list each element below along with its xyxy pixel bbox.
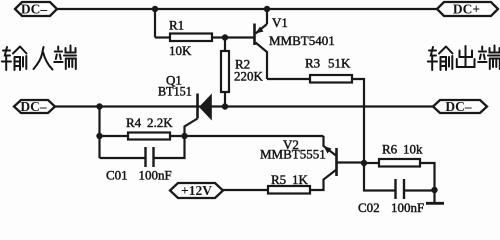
wire R6 right lead down: [420, 163, 435, 190]
ground: [426, 190, 444, 203]
wire middle DC- rail: [55, 105, 433, 107]
resistor R2: [221, 38, 229, 108]
svg-text:2.2K: 2.2K: [147, 115, 173, 130]
node dot top rail / R1: [152, 6, 158, 12]
resistor R3: [310, 75, 352, 83]
capacitor C01: [100, 136, 185, 167]
node dot gate node: [181, 133, 187, 139]
transistor V1: [255, 9, 268, 79]
terminal +12V: [170, 183, 223, 198]
resistor R5: [268, 186, 310, 194]
svg-text:100nF: 100nF: [139, 168, 172, 183]
svg-text:MMBT5551: MMBT5551: [260, 147, 326, 162]
resistor R4: [128, 133, 170, 140]
wire top rail: [57, 8, 437, 10]
svg-text:R4: R4: [126, 115, 142, 130]
svg-text:R6: R6: [382, 142, 398, 157]
terminal DC+ top-right: [437, 2, 498, 16]
resistor R1: [170, 34, 212, 42]
terminal DC- mid-right: [433, 100, 487, 113]
terminal DC- top-left: [15, 2, 57, 16]
svg-text:R3: R3: [305, 56, 320, 71]
svg-text:C02: C02: [358, 200, 380, 214]
capacitor C02: [396, 179, 435, 199]
wire gate node to V2 emitter corner: [170, 135, 324, 137]
wire node B to R6: [364, 162, 379, 164]
resistor R6: [379, 159, 420, 167]
node dot top rail / V1 emitter: [264, 6, 270, 12]
svg-text:10k: 10k: [403, 142, 423, 157]
svg-text:BT151: BT151: [158, 85, 192, 99]
node dot C02 / ground: [431, 187, 437, 193]
wire V1 collector to R3: [267, 78, 310, 80]
svg-text:DC–: DC–: [445, 99, 471, 114]
transistor V2: [310, 136, 364, 190]
svg-text:1K: 1K: [292, 172, 309, 187]
node dot R4 left: [96, 133, 102, 139]
wire R3 right lead down to node B: [352, 79, 396, 191]
svg-text:+12V: +12V: [181, 183, 212, 198]
svg-text:MMBT5401: MMBT5401: [269, 33, 335, 48]
node dot V2 base / R6: [361, 160, 367, 166]
svg-text:220K: 220K: [234, 69, 264, 84]
thyristor Q1: [185, 94, 212, 137]
label 输入端: [2, 46, 76, 71]
svg-text:10K: 10K: [169, 43, 192, 58]
wire R1 drop from top rail: [154, 9, 156, 38]
label 输出端: [428, 46, 500, 71]
wire R1 right lead to V1 base: [212, 36, 255, 38]
svg-text:51K: 51K: [328, 56, 351, 71]
svg-text:C01: C01: [106, 168, 128, 183]
svg-text:R5: R5: [271, 172, 286, 187]
svg-text:100nF: 100nF: [391, 200, 424, 214]
svg-text:DC+: DC+: [453, 2, 480, 17]
wire R1 left lead: [155, 36, 170, 38]
wire R4 row / gate node row to V2 emitter: [100, 135, 129, 137]
terminal DC- mid-left: [14, 100, 55, 113]
node dot mid rail / left drop: [96, 103, 102, 109]
node dot mid rail / R2 bottom: [222, 103, 228, 109]
wire R5 to +12V: [223, 189, 268, 191]
svg-text:DC–: DC–: [21, 2, 47, 17]
svg-text:DC–: DC–: [20, 99, 46, 114]
wire left drop from mid rail: [98, 107, 100, 159]
node dot R1/R2/V1 base: [222, 34, 228, 40]
svg-text:R1: R1: [169, 18, 184, 33]
svg-text:V1: V1: [272, 15, 288, 30]
